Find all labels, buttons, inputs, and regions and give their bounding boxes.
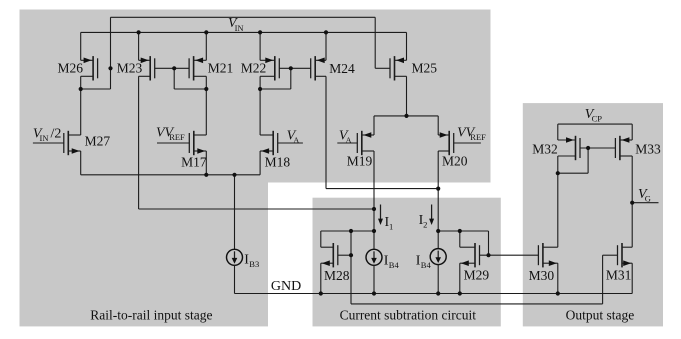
svg-text:Rail-to-rail input stage: Rail-to-rail input stage [90,308,212,323]
svg-text:B4: B4 [389,260,400,270]
svg-text:M29: M29 [464,268,490,283]
svg-text:M18: M18 [265,155,291,170]
svg-text:B3: B3 [249,259,259,269]
svg-text:A: A [293,135,300,145]
svg-text:M30: M30 [529,268,555,283]
svg-text:M21: M21 [208,61,234,76]
svg-text:Current subtration circuit: Current subtration circuit [340,308,477,323]
svg-text:M33: M33 [635,142,661,157]
svg-text:M27: M27 [85,134,111,149]
svg-text:IN: IN [40,133,49,143]
svg-text:M32: M32 [532,142,558,157]
svg-text:A: A [346,135,353,145]
svg-text:M20: M20 [442,154,468,169]
svg-text:M17: M17 [181,155,207,170]
svg-text:M24: M24 [329,61,355,76]
svg-text:1: 1 [389,222,393,232]
svg-text:2: 2 [423,220,427,230]
svg-text:IN: IN [235,23,244,33]
svg-text:B4: B4 [421,260,432,270]
svg-text:REF: REF [169,132,185,142]
svg-text:M23: M23 [117,61,143,76]
svg-text:M26: M26 [58,61,84,76]
svg-text:M31: M31 [606,268,632,283]
svg-text:Output stage: Output stage [566,308,635,323]
svg-text:M25: M25 [412,61,438,76]
svg-text:CP: CP [592,114,603,124]
svg-text:M28: M28 [324,268,350,283]
svg-text:GND: GND [271,279,301,294]
svg-text:/2: /2 [51,126,62,141]
svg-text:M22: M22 [241,61,267,76]
svg-text:REF: REF [470,132,486,142]
svg-text:M19: M19 [347,154,373,169]
svg-text:G: G [645,194,651,204]
